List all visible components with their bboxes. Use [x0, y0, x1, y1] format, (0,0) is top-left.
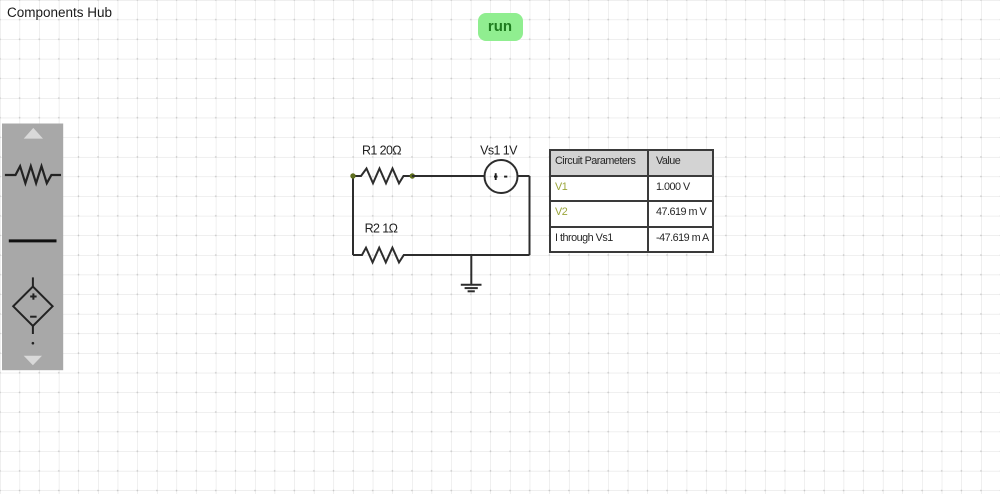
sidebar scroll-up arrow [24, 128, 43, 139]
components hub sidebar panel [2, 124, 63, 371]
wire: Vs1 to right vertical [518, 175, 530, 177]
wire: bottom rail [412, 254, 530, 256]
svg-text:R1 20Ω: R1 20Ω [362, 143, 401, 157]
voltage source Vs1 [485, 160, 518, 193]
app title [7, 5, 112, 20]
sidebar resistor icon [5, 166, 61, 183]
wire: left vertical (node A down to bottom rail) [352, 176, 354, 255]
svg-text:R2 1Ω: R2 1Ω [365, 221, 398, 235]
ground [461, 255, 482, 291]
run button [478, 13, 523, 41]
svg-text:Vs1 1V: Vs1 1V [480, 143, 518, 157]
node A dot [350, 173, 355, 178]
node B dot [410, 173, 415, 178]
sidebar dependent source icon [13, 277, 52, 334]
wire: node B to Vs1 [412, 175, 485, 177]
results table [549, 149, 714, 253]
sidebar scroll-down arrow [24, 356, 42, 366]
sidebar wire icon [9, 239, 57, 242]
resistor R1 [353, 169, 412, 184]
wire: right vertical [529, 176, 531, 255]
resistor R2 [353, 248, 412, 263]
